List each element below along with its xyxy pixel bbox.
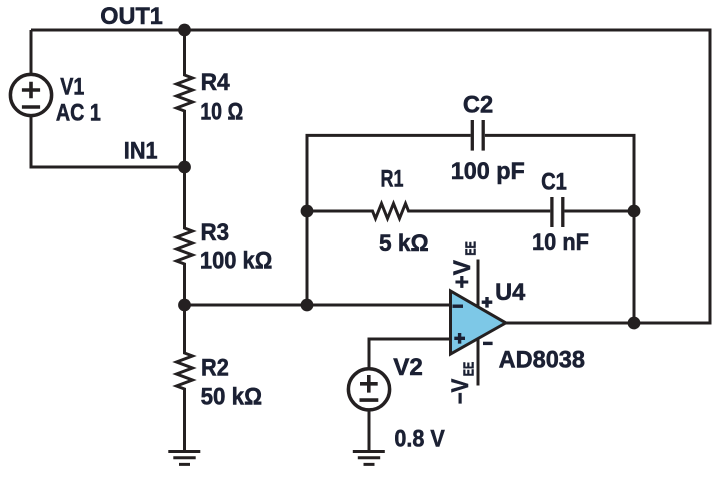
svg-text:AC 1: AC 1	[56, 100, 101, 127]
svg-text:5 kΩ: 5 kΩ	[379, 230, 429, 257]
svg-text:IN1: IN1	[124, 138, 158, 165]
svg-text:EE: EE	[463, 241, 479, 256]
svg-text:C2: C2	[463, 92, 493, 119]
svg-text:50 kΩ: 50 kΩ	[201, 383, 262, 410]
svg-text:10 Ω: 10 Ω	[200, 98, 243, 125]
svg-text:+V: +V	[449, 260, 476, 289]
svg-text:C1: C1	[541, 169, 567, 196]
svg-text:0.8 V: 0.8 V	[394, 426, 444, 453]
svg-text:V1: V1	[60, 74, 84, 101]
svg-text:R4: R4	[201, 69, 231, 96]
svg-text:100 pF: 100 pF	[451, 158, 525, 185]
svg-text:−V: −V	[447, 379, 474, 405]
svg-text:R3: R3	[201, 219, 230, 246]
svg-text:U4: U4	[495, 279, 526, 306]
svg-text:100 kΩ: 100 kΩ	[200, 248, 272, 275]
svg-text:10 nF: 10 nF	[532, 229, 589, 256]
svg-text:AD8038: AD8038	[499, 347, 585, 374]
svg-text:OUT1: OUT1	[100, 3, 163, 30]
svg-text:R1: R1	[381, 166, 404, 193]
svg-text:V2: V2	[393, 354, 423, 381]
svg-text:EE: EE	[462, 362, 478, 377]
svg-text:R2: R2	[201, 355, 229, 382]
